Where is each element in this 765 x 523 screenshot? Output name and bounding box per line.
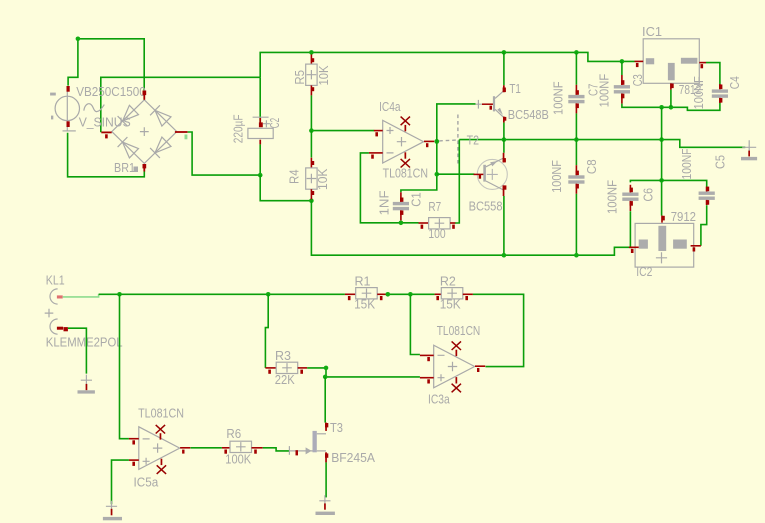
svg-text:100NF: 100NF [596, 74, 611, 108]
svg-text:IC3a: IC3a [428, 392, 450, 407]
power pin X top [156, 425, 165, 434]
svg-text:10K: 10K [315, 168, 330, 190]
svg-text:IC5a: IC5a [134, 475, 159, 490]
capacitor C4 [712, 84, 728, 103]
wire mid supply rail [459, 140, 745, 148]
wire main vertical rail [661, 107, 663, 215]
svg-text:R4: R4 [286, 169, 301, 184]
node C2 bottom [258, 173, 263, 178]
voltage source V_SINUS [50, 86, 104, 131]
wire IC4a - input feedback [360, 153, 418, 223]
wire bridge right pin to C2 bottom junction [188, 132, 261, 175]
wire lower plus rail to R1 [99, 293, 345, 295]
pin - input [369, 152, 383, 154]
node divider to IC3a [408, 292, 413, 297]
wire KL1 pin1 highlighted stub [63, 294, 99, 297]
capacitor C3 [614, 75, 630, 104]
pin output [424, 141, 434, 143]
wire AC top: source top to bridge top pin [68, 39, 144, 91]
wire IC5a + input to ground [112, 460, 129, 504]
node IC4a output [434, 139, 439, 144]
node corner dot top-left [76, 37, 81, 42]
wire C3 top stub [621, 61, 623, 75]
node main vertical rail [659, 137, 664, 142]
svg-text:BF245A: BF245A [331, 450, 375, 465]
svg-text:R2: R2 [440, 274, 456, 289]
pin - input [420, 355, 434, 357]
ground symbol KL1 [78, 375, 95, 394]
pin output [475, 365, 485, 367]
wire T3 source to ground [325, 462, 327, 497]
node main rail top [659, 105, 664, 110]
svg-text:100NF: 100NF [549, 160, 564, 193]
node C7/C8 rail [574, 137, 579, 142]
svg-text:C1: C1 [409, 192, 424, 207]
svg-text:TL081CN: TL081CN [138, 406, 184, 421]
pin + input [374, 130, 383, 132]
dashed ghost horizontal [439, 139, 458, 142]
wire C7 bottom to rail [575, 113, 577, 139]
wire node down to T3 drain [324, 377, 326, 423]
wire output down to C1 top [401, 141, 437, 192]
node C1/T2 base [435, 172, 440, 177]
resistor R4 [306, 158, 317, 200]
wire C3 bottom / GND rail under IC1 [622, 103, 720, 110]
svg-text:100: 100 [428, 226, 445, 241]
pin output [699, 62, 706, 64]
wire R3 right to T3 node [307, 368, 420, 377]
wire C2 junction down-right to R4 bottom [260, 175, 311, 201]
node T1 emitter rail [502, 137, 507, 142]
wire KL1 vertical to IC5a - input [120, 294, 129, 438]
capacitor C1 1NF [393, 192, 409, 220]
node R4 bottom [309, 198, 314, 203]
svg-text:T3: T3 [330, 420, 343, 435]
dashed ghost vertical [457, 115, 459, 164]
node C1 bottom [399, 221, 404, 226]
connector KL1 [45, 289, 68, 334]
wire minus rail bottom [311, 201, 632, 256]
svg-text:KL1: KL1 [46, 273, 65, 288]
node IC1 gnd [669, 105, 674, 110]
svg-text:TL081CN: TL081CN [383, 165, 428, 180]
node C3 top [620, 59, 625, 64]
wire T1 collector up [503, 52, 505, 85]
IC1 7812 regulator [635, 39, 707, 90]
wire R1 to R2 [386, 293, 434, 295]
pin right [175, 131, 188, 133]
svg-text:15K: 15K [354, 296, 375, 311]
svg-text:100NF: 100NF [691, 76, 706, 109]
node C6/C5 rail [659, 178, 664, 183]
svg-text:VB250C1500: VB250C1500 [76, 84, 146, 99]
op-amp IC4a [369, 117, 434, 168]
svg-text:100NF: 100NF [679, 148, 694, 179]
wire top supply rail to IC1 input [260, 52, 634, 77]
svg-text:BC558: BC558 [469, 198, 503, 213]
pin left [101, 132, 111, 134]
pin input [635, 61, 644, 63]
capacitor C2 220uF electrolytic [248, 117, 273, 144]
wire C7 top stub [575, 52, 577, 84]
wire T2 collector down to minus rail [503, 196, 505, 255]
svg-text:22K: 22K [275, 372, 295, 387]
node T1 collector rail [502, 50, 507, 55]
svg-text:KLEMME2POL: KLEMME2POL [46, 335, 123, 350]
power pin X top [401, 117, 410, 126]
svg-text:C6: C6 [640, 188, 655, 202]
wire C5 bottom to IC2 output [701, 205, 707, 246]
node KL1 rail [117, 292, 122, 297]
svg-text:BR1: BR1 [114, 160, 135, 175]
wire V_SINUS bottom to bridge bottom [68, 133, 145, 177]
svg-text:IC2: IC2 [636, 264, 652, 279]
svg-text:BC548B: BC548B [508, 107, 549, 122]
node C8 bottom rail [574, 253, 579, 258]
power pin X bottom [401, 159, 410, 168]
svg-text:C4: C4 [727, 76, 742, 89]
wire KL1 pin2 to ground [68, 328, 87, 373]
wire R5 bottom to op-amp + input [311, 95, 374, 130]
node R5/R4 divider [309, 128, 314, 133]
resistor R3 [265, 362, 307, 374]
svg-text:100NF: 100NF [605, 180, 620, 214]
resistor R1 [345, 288, 387, 301]
pin gnd top [661, 216, 663, 223]
svg-text:C3: C3 [630, 74, 645, 86]
svg-text:100NF: 100NF [551, 81, 566, 115]
resistor R7 [419, 218, 456, 229]
node C7 top [574, 50, 579, 55]
resistor R2 [435, 288, 473, 301]
wire C6 top rail to C5 top [630, 180, 706, 187]
wire R4 top stub [310, 131, 312, 158]
node T2 collector rail [502, 253, 507, 258]
svg-text:100K: 100K [225, 452, 251, 467]
svg-text:10K: 10K [316, 65, 331, 85]
svg-text:TL081CN: TL081CN [437, 323, 481, 338]
wire junction to T2 base [437, 173, 475, 175]
ground symbol T3 [316, 495, 335, 515]
power pin X bottom [157, 465, 166, 474]
power pin X top [452, 341, 461, 350]
node R3 drop [266, 292, 271, 297]
capacitor C5 [699, 187, 715, 205]
svg-text:15K: 15K [440, 296, 461, 311]
node R5 top [309, 50, 314, 55]
svg-text:IC1: IC1 [642, 24, 662, 39]
pin top [143, 91, 145, 100]
pin + input [129, 459, 139, 461]
wire output up to T1 base [437, 104, 476, 141]
pin gnd [670, 83, 672, 89]
svg-text:IC4a: IC4a [379, 99, 401, 114]
wire rail down to T2 emitter [503, 140, 505, 153]
svg-text:R3: R3 [275, 348, 291, 363]
pin bottom [143, 164, 145, 172]
svg-text:R5: R5 [292, 70, 307, 85]
transistor T3 BF245A [289, 423, 328, 463]
wire R3 drop with jog [265, 294, 268, 368]
svg-text:T2: T2 [467, 133, 479, 148]
bridge rectifier BR1 [101, 91, 187, 172]
capacitor C6 [622, 185, 638, 211]
pin - input [129, 438, 139, 440]
wire R2 feedback loop to IC3a output [473, 294, 524, 366]
op-amp IC5a [129, 425, 190, 474]
capacitor C8 [568, 165, 584, 194]
svg-text:C8: C8 [584, 159, 599, 174]
capacitor C7 [568, 85, 584, 114]
wire T1 emitter down to rail [503, 123, 505, 140]
svg-text:T1: T1 [509, 81, 521, 96]
node T3 drain tee [323, 375, 328, 380]
svg-text:C2: C2 [267, 118, 282, 128]
node R1 right [386, 292, 391, 297]
pin + input [420, 377, 434, 379]
svg-text:R1: R1 [355, 274, 371, 289]
transistor T1 BC548B [476, 85, 507, 122]
transistor T2 BC558 [474, 153, 508, 196]
pin output [180, 447, 190, 449]
wire down to IC3a - input [410, 294, 420, 354]
wire IC5a output to R6 [191, 447, 222, 449]
ground symbol IC5a [103, 501, 122, 521]
node R3 corner [324, 366, 329, 371]
wire IC1 gnd pin [670, 90, 672, 108]
wire plus rail: bridge left pin up and right to C2/R5 corner [101, 77, 260, 132]
resistor R6 [222, 441, 263, 454]
wire rail down to R7 right [455, 140, 459, 223]
svg-text:R7: R7 [428, 199, 441, 214]
power pin X bottom [452, 384, 461, 393]
svg-text:7912: 7912 [671, 209, 696, 224]
svg-text:R6: R6 [226, 426, 241, 441]
IC2 7912 regulator [629, 216, 701, 268]
svg-text:220µF: 220µF [231, 114, 246, 143]
wire R6 to T3 gate [263, 448, 289, 451]
svg-text:1NF: 1NF [377, 190, 392, 215]
wire C2 top drop [259, 77, 261, 122]
svg-text:C5: C5 [713, 155, 728, 169]
pin output right [691, 245, 701, 247]
wire IC1 out to C4 [706, 63, 720, 85]
wire C6 bottom to IC2 input [629, 211, 631, 247]
op-amp IC3a [420, 341, 485, 392]
pin input left [629, 247, 639, 249]
wire rail to C8 top [575, 140, 577, 166]
resistor R5 [306, 55, 317, 96]
wire C8 bottom to minus rail [575, 194, 577, 255]
wire C2 bottom to minus node [259, 144, 261, 175]
ground symbol right [741, 140, 757, 160]
